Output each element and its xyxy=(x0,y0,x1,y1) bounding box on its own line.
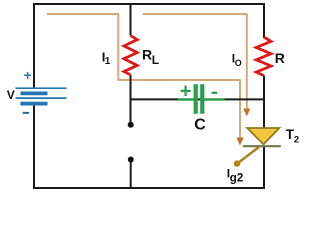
wire middle branch below resistor xyxy=(130,75,132,123)
svg-text:+: + xyxy=(24,68,32,83)
current path I1 (orange) xyxy=(47,14,240,139)
battery minus label xyxy=(23,112,29,114)
svg-text:g2: g2 xyxy=(230,173,243,185)
current path IO (orange) xyxy=(143,14,247,110)
battery V plates xyxy=(16,88,67,103)
wire middle branch bottom xyxy=(130,160,132,190)
capacitor C right plate xyxy=(200,84,204,114)
wire right border lower xyxy=(263,146,265,189)
svg-text:2: 2 xyxy=(294,135,299,146)
thyristor T2 triangle xyxy=(247,128,279,144)
node junction dot upper xyxy=(128,122,134,128)
wire left border upper xyxy=(33,3,35,88)
capacitor C left lead xyxy=(178,98,194,100)
current arrow IO head xyxy=(243,109,250,117)
svg-text:C: C xyxy=(194,117,206,134)
svg-text:R: R xyxy=(142,46,152,62)
svg-text:V: V xyxy=(7,88,15,102)
wire middle branch top stub xyxy=(130,3,132,36)
wire right border upper xyxy=(263,3,265,38)
svg-text:O: O xyxy=(235,58,242,68)
wire top border xyxy=(33,3,264,5)
svg-text:L: L xyxy=(152,53,159,67)
wire horizontal link at y=99.5 xyxy=(130,98,264,100)
thyristor T2 gate lead xyxy=(238,147,259,163)
svg-text:+: + xyxy=(180,81,192,103)
svg-text:1: 1 xyxy=(105,56,111,67)
capacitor C left plate xyxy=(194,84,198,114)
svg-text:R: R xyxy=(275,50,285,66)
resistor R xyxy=(256,37,271,76)
thyristor gate terminal dot xyxy=(234,160,240,166)
wire left border lower xyxy=(33,105,35,188)
resistor RL xyxy=(124,36,137,75)
current arrow I1 head xyxy=(236,138,243,146)
capacitor minus label xyxy=(212,92,218,94)
node junction dot lower xyxy=(128,157,134,163)
thyristor T2 cathode bar xyxy=(243,145,281,147)
capacitor C right lead xyxy=(204,98,225,100)
wire right border middle xyxy=(263,76,265,130)
wire bottom border xyxy=(33,187,265,189)
